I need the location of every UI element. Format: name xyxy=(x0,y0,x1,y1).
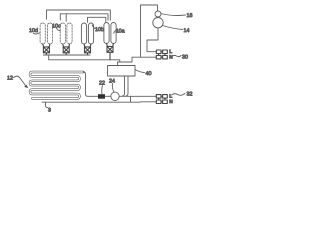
pipe from coil to heater 22 xyxy=(83,72,98,96)
heater 22 (black block) xyxy=(98,94,105,99)
svg-text:14: 14 xyxy=(184,28,190,34)
power connector 30 xyxy=(156,50,167,59)
circle 16 (accumulator) xyxy=(155,11,161,17)
svg-text:N: N xyxy=(169,99,173,105)
evaporator unit 10a xyxy=(104,23,109,44)
riser leg of unit 10c xyxy=(65,14,67,21)
svg-text:30: 30 xyxy=(182,55,188,61)
svg-text:10b: 10b xyxy=(95,27,104,33)
power connector 32 xyxy=(156,95,167,104)
riser pipe to compressor circle xyxy=(141,5,158,57)
wire from pump to connector 32 xyxy=(119,95,156,97)
svg-text:L: L xyxy=(169,49,172,55)
svg-text:24: 24 xyxy=(109,79,115,85)
svg-text:32: 32 xyxy=(187,92,193,98)
evaporator unit 10d (dashed tubes) xyxy=(40,23,53,44)
expansion valve V1 xyxy=(43,44,50,55)
box 40 drop wires with hooks xyxy=(123,76,125,96)
svg-text:22: 22 xyxy=(99,81,105,87)
svg-text:12: 12 xyxy=(7,76,13,82)
branch junction to lower wire xyxy=(130,96,132,102)
circle 14 (compressor) xyxy=(153,18,163,28)
pipe from box 40 to L-N unit 30 xyxy=(132,57,156,62)
wire W3 into control box xyxy=(118,62,133,66)
evaporator unit 10b xyxy=(81,23,86,44)
expansion valve V4 xyxy=(107,44,114,60)
svg-text:16: 16 xyxy=(187,13,193,19)
control box 40 xyxy=(108,66,136,77)
svg-text:10a: 10a xyxy=(116,29,125,35)
evaporator unit 10c (dashed tubes) xyxy=(60,23,72,44)
wire W2 under valves xyxy=(49,55,120,62)
expansion valve V3 xyxy=(84,44,91,55)
wire W1 linking valves xyxy=(43,54,90,56)
under-coil pipe xyxy=(42,101,156,103)
header pipe H2 (10c to 10a) xyxy=(60,14,108,20)
pipe from compressor down to unit 30 xyxy=(147,28,158,52)
header pipe H1 (10d to 10a) xyxy=(47,10,111,20)
evaporator coil 12 (serpentine tube, outlined) xyxy=(30,72,83,98)
jumper pipe J1 (10b to 10a) xyxy=(88,17,106,22)
label 3 leader xyxy=(46,102,48,107)
pump 24 xyxy=(105,95,111,97)
svg-text:40: 40 xyxy=(146,71,152,77)
svg-text:3: 3 xyxy=(48,108,51,114)
expansion valve V2 xyxy=(63,44,70,55)
